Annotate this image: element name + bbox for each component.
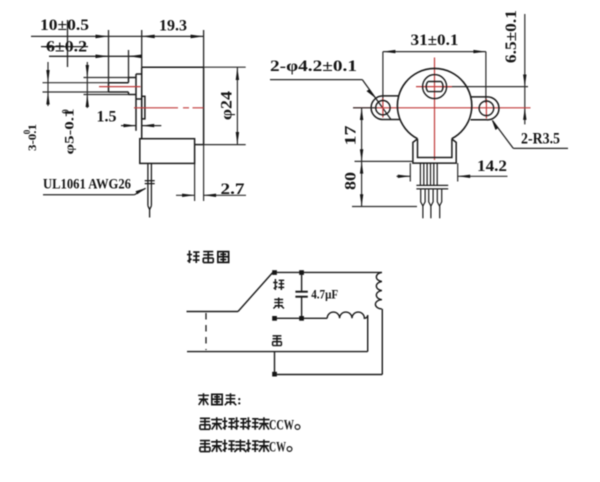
svg-text:CW: CW xyxy=(269,440,286,456)
wire tips xyxy=(422,206,424,218)
shaft center ext line xyxy=(443,86,528,88)
wire bottom lead xyxy=(187,351,368,353)
arrow 19.3 right xyxy=(191,35,204,39)
svg-text:17: 17 xyxy=(342,126,359,146)
shaft phi5 bottom xyxy=(129,94,137,96)
shaft step verticals xyxy=(128,78,130,83)
three wires doubled xyxy=(421,189,425,206)
arrow 10 left xyxy=(96,35,109,39)
label red 红 xyxy=(273,279,284,290)
right ear xyxy=(471,97,499,120)
shaft tip xyxy=(108,83,110,92)
shaft centerline red xyxy=(99,86,141,88)
shaft circle with flats xyxy=(426,82,443,92)
arrows 3-0.1 dim xyxy=(46,65,89,107)
svg-text:31±0.1: 31±0.1 xyxy=(411,32,459,49)
dimension line 6±0.2 xyxy=(49,55,142,57)
wire top lead xyxy=(187,311,239,313)
dims 17 and 80 xyxy=(352,108,417,207)
shaft phi5 top xyxy=(129,77,137,79)
terminal dots xyxy=(272,270,304,376)
boss circle front xyxy=(423,75,447,99)
wire yellow node to inductor L1 xyxy=(277,317,327,319)
svg-text:CCW: CCW xyxy=(269,418,294,434)
svg-text:19.3: 19.3 xyxy=(159,18,187,35)
dashed link xyxy=(205,313,207,350)
extension line mystery xyxy=(67,20,69,67)
dim line phi5-0.1 xyxy=(86,62,88,108)
right ear hole xyxy=(479,101,494,116)
red centerlines front view xyxy=(353,58,531,161)
arrow 19.3 left xyxy=(142,35,155,39)
phi5 ext top/bottom xyxy=(84,77,129,79)
arrow small line B xyxy=(41,45,51,48)
line: 电源接红线为CCW。 xyxy=(200,417,300,433)
body top xyxy=(142,66,204,68)
coil L2 vertical xyxy=(375,272,381,309)
body circle front xyxy=(397,68,471,138)
svg-text:3-0.1: 3-0.1 xyxy=(25,124,39,151)
shaft flat top xyxy=(109,82,129,84)
svg-text:φ24: φ24 xyxy=(218,91,235,120)
body bottom right part xyxy=(195,144,204,146)
label yellow 黄 xyxy=(273,298,284,309)
motor body side xyxy=(109,67,204,163)
capacitor C1 4.7uF xyxy=(301,275,303,291)
dim line 3-0.1 xyxy=(47,62,49,106)
按图示: xyxy=(198,393,242,408)
band xyxy=(416,184,448,186)
body centerline red xyxy=(134,107,204,109)
ext lines 31 xyxy=(382,52,384,100)
title 接线图 xyxy=(187,251,229,264)
terminal box xyxy=(140,139,195,164)
svg-text:0: 0 xyxy=(22,129,32,134)
pin comb wires xyxy=(416,163,448,218)
inductor L1 horizontal xyxy=(327,312,368,318)
boss bottom xyxy=(136,98,142,100)
flat ext lines xyxy=(43,82,109,84)
body back xyxy=(203,67,205,144)
shaft flat bottom xyxy=(109,91,129,93)
arrows top dims xyxy=(41,35,204,59)
label black 黑 xyxy=(273,336,282,346)
dim line 6.5 xyxy=(524,14,526,124)
svg-text:UL1061 AWG26: UL1061 AWG26 xyxy=(43,177,131,193)
svg-text:10±0.5: 10±0.5 xyxy=(40,17,89,34)
dim line 31 xyxy=(383,51,486,53)
arrows phi5 dim xyxy=(86,65,89,78)
svg-text:2-R3.5: 2-R3.5 xyxy=(521,131,560,148)
svg-text:80: 80 xyxy=(342,172,359,190)
svg-text:2.7: 2.7 xyxy=(221,181,245,198)
line: 电源接黄线为CW。 xyxy=(200,440,292,456)
thin extension lines around shaft xyxy=(43,62,129,108)
svg-text:2-φ4.2±0.1: 2-φ4.2±0.1 xyxy=(270,58,357,75)
dim line through 6±0.2 text xyxy=(41,46,88,48)
svg-text::: : xyxy=(237,394,242,409)
locating pin rect xyxy=(142,96,145,119)
lead wire side view xyxy=(145,163,155,217)
boss front face xyxy=(135,74,137,131)
svg-text:14.2: 14.2 xyxy=(477,158,507,175)
svg-text:6.5±0.1: 6.5±0.1 xyxy=(503,10,520,63)
extension line body face top xyxy=(141,30,143,67)
switch SW1 arm xyxy=(238,273,273,312)
arrow 6 right xyxy=(129,55,142,59)
arrow 6 left xyxy=(96,55,109,59)
left ear hole xyxy=(376,101,390,115)
dim 2.7 xyxy=(176,145,246,201)
extension line shaft tip xyxy=(108,30,110,82)
body front face xyxy=(141,67,143,139)
black terminal drop xyxy=(274,352,276,372)
left ear xyxy=(371,96,400,120)
dim 1.5 xyxy=(121,125,161,127)
boss top xyxy=(136,73,142,75)
svg-text:-0: -0 xyxy=(60,109,70,117)
svg-text:6±0.2: 6±0.2 xyxy=(46,39,87,56)
svg-text:4.7μF: 4.7μF xyxy=(311,288,338,302)
svg-text:1.5: 1.5 xyxy=(97,109,117,126)
dimension line top shared (10 and 19.3) xyxy=(31,35,204,37)
wire black node to coil L2 xyxy=(277,374,383,376)
extension line body back top xyxy=(203,30,205,67)
phi24 dimension xyxy=(204,67,246,144)
neck housing xyxy=(413,139,456,163)
dim 14.2 xyxy=(397,163,508,181)
extension line shaft step xyxy=(128,50,130,77)
wire red node to coil L2 xyxy=(277,271,382,273)
